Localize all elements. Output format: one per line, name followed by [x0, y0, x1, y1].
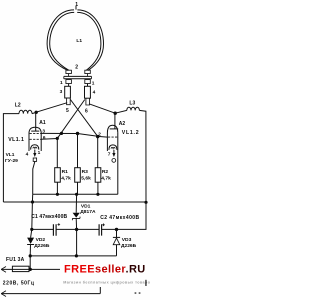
plug terminal left lower block: [66, 80, 72, 84]
svg-text:7: 7: [108, 151, 111, 157]
svg-text:VL1.1: VL1.1: [8, 137, 24, 143]
svg-text:FU1 3А: FU1 3А: [6, 257, 25, 263]
diode VD3 triangle (hollow, apex up): [113, 238, 120, 245]
node R3 bottom: [75, 193, 78, 196]
wire L2 right lead: [32, 112, 36, 113]
node R1 bottom: [56, 193, 59, 196]
svg-text:Д226Б: Д226Б: [34, 243, 50, 249]
svg-text:L2: L2: [15, 102, 21, 108]
svg-text:A2: A2: [119, 121, 126, 127]
svg-text:L1: L1: [76, 38, 82, 44]
wire L2 left lead down left edge: [3, 114, 19, 202]
svg-text:4: 4: [93, 90, 96, 96]
capacitor C1: [53, 223, 60, 236]
node y256 / left column: [29, 254, 32, 257]
anode lead VL1.1: [35, 112, 37, 131]
zener VD1 triangle: [73, 213, 80, 218]
svg-text:4,7k: 4,7k: [101, 175, 111, 181]
resistor R1: [55, 138, 61, 194]
node C2 right wire / VD3 column: [115, 228, 118, 231]
tube VL1.2 right wall riser to bus: [117, 133, 119, 195]
connector mating bar: [64, 74, 92, 79]
grid 2 dashes VL1.1 (pin 6): [30, 138, 41, 140]
svg-text:4,7k: 4,7k: [61, 175, 71, 181]
socket left fork (pin 5): [67, 98, 71, 105]
fuse FU1 body: [12, 266, 29, 271]
node A2: [114, 112, 117, 115]
left column wire (bus A to fuse wire): [30, 194, 33, 269]
node R2 top: [96, 135, 99, 138]
svg-text:C2 47мкх400В: C2 47мкх400В: [100, 215, 139, 221]
node R3 top: [76, 132, 79, 135]
loop antenna L1 inner ring: [50, 12, 101, 70]
node line B / left column: [31, 200, 34, 203]
wire L3 left lead to A2: [115, 110, 127, 113]
svg-text:5,6k: 5,6k: [81, 175, 91, 181]
wire fork5 to L2 junction node: [36, 103, 67, 113]
wire y256 (rectifier return): [30, 255, 116, 257]
diode VD3 bar (top): [113, 236, 120, 238]
pin 1 tick at top of L1: [75, 6, 77, 10]
svg-text:2: 2: [75, 64, 78, 70]
svg-text:1: 1: [75, 2, 78, 8]
diode VD3 column lower: [116, 245, 118, 256]
inductor L2: [19, 110, 32, 113]
svg-text:6: 6: [85, 108, 88, 114]
grid dashes VL1.2 (pin 2): [108, 136, 117, 138]
plug terminal left upper block: [66, 70, 72, 73]
terminal square VL1.1 cathode: [33, 158, 36, 161]
socket XS right stub: [87, 84, 89, 87]
grid 1 dashes VL1.1 (pin 3): [30, 132, 41, 134]
loop antenna L1 outer ring: [47, 10, 103, 71]
node fuse wire / left column: [29, 268, 32, 271]
socket XS right body (pin 4): [85, 86, 91, 98]
bus A (cathode bus): [33, 193, 118, 195]
svg-text:VL1: VL1: [6, 152, 15, 158]
diode VD2 bar: [27, 244, 34, 246]
wire grid node to VL1.2: [98, 135, 108, 138]
heater curl VL1.1: [33, 147, 37, 148]
svg-text:Д817А: Д817А: [80, 209, 96, 215]
diode VD1 (zener) column: [75, 194, 77, 256]
svg-text:FREEseller.RU: FREEseller.RU: [64, 263, 146, 275]
svg-text:4: 4: [26, 152, 29, 158]
svg-text:R1: R1: [62, 169, 69, 175]
cathode VL1.2: [109, 145, 117, 150]
plug terminal right lower block: [85, 80, 91, 84]
cathode lead + arrow VL1.1: [33, 150, 36, 157]
watermark cursor bar: [145, 280, 146, 286]
svg-text:L3: L3: [129, 100, 135, 106]
node cap row / VD1: [75, 228, 78, 231]
svg-text:R2: R2: [102, 169, 109, 175]
svg-text:Д226Б: Д226Б: [121, 243, 137, 249]
wire pin6 line to R1: [41, 138, 57, 141]
cathode lead + arrow VL1.2: [112, 150, 115, 157]
capacitor C2: [99, 224, 105, 236]
inductor L3: [127, 107, 140, 110]
wire pin3 line to R3 and R2 grid node: [41, 133, 97, 136]
wire line B (L2 return): [3, 201, 146, 203]
artifact dots: [135, 292, 137, 294]
diode VD2 triangle: [27, 238, 34, 244]
anode plate VL1.2: [110, 128, 119, 130]
tube VL1.2 envelope: [107, 125, 117, 151]
wire cathode to bus A: [33, 161, 35, 194]
node A1 junction: [35, 111, 38, 114]
diode VD3 column upper: [116, 229, 118, 237]
svg-text:VD2: VD2: [36, 237, 46, 243]
tube VL1.1 envelope: [29, 127, 41, 151]
svg-text:C1 47мкх400В: C1 47мкх400В: [31, 214, 67, 220]
wire L3 right lead down right edge: [139, 110, 146, 202]
anode lead VL1.2: [114, 113, 116, 129]
svg-text:1: 1: [38, 150, 41, 156]
node cap row / left column: [30, 228, 33, 231]
node R1 top: [56, 137, 59, 140]
svg-text:VL1.2: VL1.2: [122, 130, 140, 136]
zener VD1 bar with hooks: [72, 217, 80, 221]
socket right fork (pin 6): [86, 98, 90, 105]
svg-text:A1: A1: [39, 120, 46, 126]
heater curl VL1.2: [111, 147, 115, 148]
wire crossing: fork6 to grid node R1: [57, 100, 85, 139]
svg-text:ГУ-29: ГУ-29: [5, 158, 18, 164]
resistor R3: [75, 134, 81, 195]
cathode VL1.1: [31, 145, 39, 150]
node y256 / VD1 column: [75, 254, 78, 257]
svg-text:220В, 50Гц: 220В, 50Гц: [3, 280, 35, 286]
anode plate VL1.1: [31, 130, 39, 132]
terminal circle VL1.2 cathode: [112, 159, 116, 163]
svg-text:1: 1: [60, 80, 63, 86]
svg-text:Магазин бесплатных цифровых то: Магазин бесплатных цифровых товаров: [63, 280, 150, 284]
neutral riser (partially hidden by watermark): [99, 287, 101, 294]
svg-text:VD3: VD3: [122, 237, 132, 243]
socket XS left body (pin 3): [65, 86, 71, 98]
svg-text:5: 5: [66, 108, 69, 114]
cap row wire: [32, 202, 146, 229]
node line B / right edge wire: [144, 201, 147, 204]
wire crossing: fork5 to grid node R2: [70, 100, 97, 137]
resistor R2: [95, 137, 101, 195]
mains neutral wire with arrow: [1, 291, 100, 297]
plug terminal right upper block: [85, 70, 91, 73]
node R2 bottom: [96, 193, 99, 196]
svg-text:1: 1: [92, 80, 95, 86]
wire fork6 to anode node A2: [89, 104, 115, 113]
svg-text:R3: R3: [82, 169, 89, 175]
svg-text:3: 3: [60, 89, 63, 95]
socket XS left stub: [68, 84, 70, 87]
svg-text:3: 3: [42, 128, 45, 133]
svg-text:VD1: VD1: [81, 204, 91, 210]
fuse FU1 wire with mains arrow: [1, 267, 60, 273]
node on pin3 line at crossing: [60, 132, 63, 135]
